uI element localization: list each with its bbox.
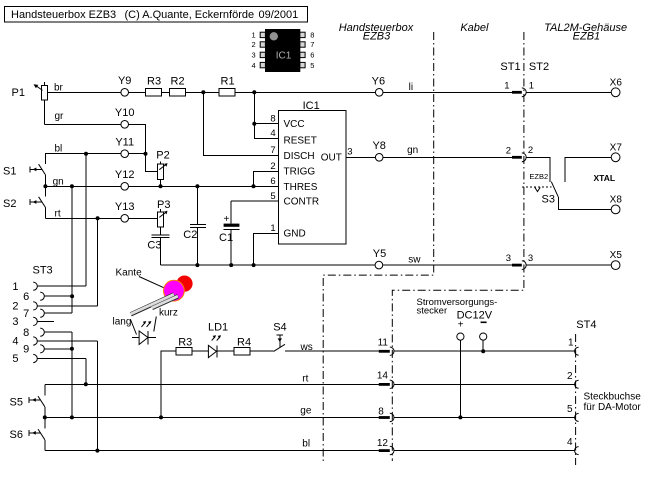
- wire gn to S3 common: [526, 157, 550, 182]
- wire X7 branch: [565, 157, 611, 182]
- node Y13: [121, 215, 129, 223]
- svg-text:4: 4: [567, 437, 573, 448]
- junction gn drop: [70, 184, 74, 188]
- junction pin6: [70, 294, 74, 298]
- svg-text:Y5: Y5: [373, 248, 386, 260]
- svg-text:S6: S6: [10, 429, 23, 441]
- svg-text:rt: rt: [55, 209, 61, 220]
- connector ST1/ST2 pin 2 plug bar: [512, 156, 522, 159]
- svg-text:li: li: [409, 82, 413, 93]
- junction bl/P2: [144, 152, 148, 156]
- wire TRIGG bracket: [254, 171, 279, 186]
- chip pin 6 right: [300, 52, 305, 57]
- node Y8: [375, 154, 383, 162]
- wire pin8 drop to ge row: [71, 332, 73, 417]
- svg-text:Y10: Y10: [115, 107, 135, 119]
- boundary dash-dot ST4: [575, 334, 577, 465]
- svg-text:stecker: stecker: [417, 306, 448, 317]
- chip pin 3 left: [260, 52, 265, 57]
- svg-text:kurz: kurz: [159, 308, 178, 319]
- junction bl/pin1 drop: [84, 152, 88, 156]
- connector bar 14: [379, 383, 390, 386]
- chip pin 4 left: [260, 62, 265, 67]
- svg-text:S2: S2: [3, 198, 16, 210]
- junction row92 VCC drop: [252, 90, 256, 94]
- svg-text:2: 2: [12, 301, 18, 313]
- svg-text:P2: P2: [156, 149, 169, 161]
- junction rt drop: [96, 216, 100, 220]
- svg-text:gr: gr: [55, 111, 65, 122]
- svg-text:ws: ws: [300, 342, 313, 353]
- svg-text:8: 8: [310, 31, 314, 40]
- svg-text:C1: C1: [219, 232, 233, 244]
- wire pin5 drop to rt row: [85, 359, 87, 385]
- boundary dash-dot EZB3/Kabel: [323, 32, 434, 463]
- svg-text:6: 6: [270, 176, 275, 187]
- svg-text:ST2: ST2: [529, 61, 549, 73]
- svg-text:Y6: Y6: [372, 75, 385, 87]
- LED photo leads gray: [130, 294, 173, 314]
- svg-text:4: 4: [252, 61, 256, 70]
- wire OUT to Y8: [346, 156, 512, 158]
- wire S2 bottom to rt row: [44, 208, 46, 219]
- svg-text:4: 4: [12, 336, 18, 348]
- connector bar 12: [379, 449, 390, 452]
- ground rail: [161, 264, 513, 266]
- LED photo leads outline: [131, 295, 174, 315]
- connector ST3 pin 9: [40, 345, 44, 353]
- svg-text:1: 1: [270, 223, 275, 234]
- svg-text:X7: X7: [610, 143, 623, 154]
- terminal X7: [611, 153, 620, 162]
- resistor R1: [219, 89, 235, 96]
- title box: [5, 7, 308, 23]
- junction gn S1/S2: [43, 184, 47, 188]
- resistor R3 bottom: [176, 348, 192, 355]
- resistor R2: [169, 89, 185, 96]
- connector ST3 pin 2: [33, 302, 37, 310]
- svg-text:rt: rt: [302, 374, 308, 385]
- connector bar 8: [379, 416, 390, 419]
- connector ST3 pin 4: [33, 337, 37, 345]
- svg-text:5: 5: [270, 191, 275, 202]
- wire P2 bottom: [159, 179, 161, 186]
- svg-text:S1: S1: [3, 166, 16, 178]
- svg-text:7: 7: [270, 145, 275, 156]
- svg-text:VCC: VCC: [284, 119, 305, 130]
- node Y5: [375, 261, 383, 269]
- svg-text:R1: R1: [221, 76, 235, 88]
- svg-text:8: 8: [270, 114, 275, 125]
- switch S4: [273, 322, 286, 352]
- svg-text:P3: P3: [157, 199, 170, 211]
- IC chip icon body: [252, 29, 315, 72]
- potentiometer P1: [12, 82, 48, 125]
- svg-text:3: 3: [12, 316, 18, 328]
- svg-text:Y13: Y13: [115, 201, 135, 213]
- connector ST1/ST2 pin 3 socket arc: [522, 261, 526, 270]
- svg-text:8: 8: [378, 407, 384, 418]
- wire bl to ST4 pin4: [394, 450, 574, 452]
- svg-text:bl: bl: [302, 439, 310, 450]
- svg-text:8: 8: [23, 327, 29, 339]
- junction ge S5/S6: [43, 415, 47, 419]
- svg-text:Y12: Y12: [115, 169, 135, 181]
- svg-text:EZB1: EZB1: [573, 31, 601, 43]
- svg-text:Steckbuchse: Steckbuchse: [584, 391, 642, 402]
- junction pin5/rt: [84, 382, 88, 386]
- node Y6: [375, 89, 383, 97]
- wire rt drop to pin2: [97, 218, 99, 306]
- chip pin 7 right: [300, 42, 305, 47]
- svg-text:5: 5: [567, 404, 573, 415]
- svg-text:2: 2: [252, 40, 256, 49]
- svg-text:OUT: OUT: [321, 152, 342, 163]
- svg-text:für DA-Motor: für DA-Motor: [584, 402, 642, 413]
- switch S1: [3, 164, 46, 177]
- svg-text:+: +: [458, 319, 464, 330]
- svg-text:1: 1: [504, 80, 509, 91]
- capacitor C3: [147, 235, 169, 252]
- op-amp/timer IC1 body: [278, 111, 346, 245]
- svg-text:THRES: THRES: [284, 182, 318, 193]
- svg-text:11: 11: [378, 338, 389, 349]
- connector ST3 pin 3: [33, 317, 37, 325]
- junction VCC: [252, 122, 256, 126]
- svg-text:R3: R3: [147, 76, 161, 88]
- svg-text:3: 3: [252, 51, 256, 60]
- svg-text:R3: R3: [178, 337, 192, 349]
- junction rail GND: [252, 263, 256, 267]
- svg-text:4: 4: [270, 128, 275, 139]
- svg-text:1: 1: [12, 281, 18, 293]
- leader Kante to LED: [139, 277, 164, 288]
- svg-text:14: 14: [377, 371, 389, 382]
- junction bl pin4: [95, 449, 99, 453]
- LED photo magenta body: [164, 280, 185, 301]
- junction rail C1: [229, 263, 233, 267]
- terminal X8: [611, 205, 620, 214]
- switch S2: [3, 186, 46, 210]
- svg-text:X6: X6: [610, 78, 623, 89]
- wire ge to ST4 pin5: [394, 416, 574, 418]
- svg-text:X5: X5: [610, 250, 623, 261]
- svg-text:gn: gn: [407, 145, 418, 156]
- svg-text:TRIGG: TRIGG: [284, 167, 316, 178]
- potentiometer P3: [157, 199, 170, 227]
- svg-text:Y9: Y9: [118, 75, 131, 87]
- connector ST4 pin 1: [575, 347, 579, 355]
- junction pin9 on pin8 drop: [70, 347, 74, 351]
- chip pin 2 left: [260, 42, 265, 47]
- chip dot marker: [270, 32, 278, 40]
- connector ST3 pin 8: [40, 328, 44, 336]
- wire S4 to connector 11: [285, 350, 379, 352]
- junction rail C2: [195, 263, 199, 267]
- svg-text:3: 3: [347, 147, 352, 158]
- svg-text:6: 6: [310, 51, 314, 60]
- wire pin4 drop to bl row: [96, 341, 98, 451]
- svg-text:Kabel: Kabel: [460, 22, 489, 34]
- wire minus to ws row: [482, 340, 484, 351]
- wire rt row Y13 to P3: [45, 217, 157, 219]
- node Y12: [121, 183, 129, 191]
- terminal X5: [611, 261, 620, 270]
- svg-text:CONTR: CONTR: [284, 197, 320, 208]
- svg-text:Y11: Y11: [115, 136, 134, 148]
- junction gn P2 bottom: [159, 184, 163, 188]
- svg-text:EZB3: EZB3: [363, 31, 391, 43]
- svg-text:EZB2: EZB2: [529, 172, 548, 181]
- rail right of ST1 socket to X5: [526, 264, 611, 266]
- wire br row Y9: [47, 91, 512, 93]
- svg-text:ge: ge: [300, 406, 312, 417]
- svg-text:XTAL: XTAL: [594, 173, 616, 183]
- connector ST3 pin 5: [33, 354, 37, 362]
- wire gn row Y12 / THRES: [45, 185, 278, 187]
- svg-text:1: 1: [529, 81, 534, 92]
- svg-text:S5: S5: [10, 397, 23, 409]
- switch S3 blade: [551, 182, 558, 197]
- resistor R4: [234, 348, 250, 355]
- chip pin 1 left: [260, 32, 265, 37]
- minus terminal: [481, 322, 487, 324]
- svg-text:lang: lang: [113, 317, 132, 328]
- svg-text:3: 3: [506, 253, 511, 264]
- connector ST3 pin 6: [40, 292, 44, 300]
- svg-text:R2: R2: [171, 76, 185, 88]
- boundary dash-dot Kabel/TAL2M ST2: [392, 32, 524, 461]
- wire ge row bottom: [45, 416, 379, 418]
- svg-text:LD1: LD1: [208, 321, 228, 333]
- connector bar 11: [379, 350, 390, 353]
- connector ST1/ST2 pin 3 plug bar: [512, 264, 522, 267]
- chip pin 5 right: [300, 62, 305, 67]
- connector ST3 pin 7: [40, 309, 44, 317]
- connector ST4 pin 4: [575, 447, 579, 455]
- wire bl row bottom: [45, 450, 379, 452]
- wire DISCH drop: [203, 92, 278, 155]
- capacitor C2: [183, 186, 206, 265]
- leader kurz: [154, 317, 157, 332]
- leader lang: [131, 320, 137, 335]
- svg-text:2: 2: [567, 371, 573, 382]
- wire ws to ST4 pin1: [394, 350, 574, 352]
- switch S5: [10, 384, 45, 417]
- svg-text:C2: C2: [183, 229, 197, 241]
- capacitor C1 electrolytic: [219, 201, 239, 265]
- chip pin 8 right: [300, 32, 305, 37]
- svg-text:12: 12: [377, 438, 389, 449]
- svg-text:DISCH: DISCH: [284, 151, 315, 162]
- wire rt to ST4 pin2: [394, 383, 574, 385]
- wire GND pin drop: [254, 233, 279, 265]
- junction gn C2: [195, 184, 199, 188]
- connector ST4 pin 5: [575, 413, 579, 421]
- svg-text:S3: S3: [542, 193, 555, 205]
- connector ST3 pin 1: [33, 282, 37, 290]
- junction ge R3 feed: [159, 415, 163, 419]
- connector ST1/ST2 pin 2 socket arc: [522, 153, 526, 162]
- junction gn TRIGG bracket: [252, 184, 256, 188]
- resistor R3 top: [145, 89, 161, 96]
- svg-text:7: 7: [23, 308, 29, 320]
- wire VCC/RESET drop: [254, 92, 278, 138]
- wire gn drop to pin6/pin7: [71, 186, 73, 313]
- svg-text:Y8: Y8: [372, 140, 385, 152]
- svg-text:1: 1: [252, 31, 256, 40]
- svg-text:gn: gn: [53, 176, 64, 187]
- svg-text:1: 1: [568, 338, 574, 349]
- LED photo red dome: [176, 276, 192, 292]
- node Y10: [121, 121, 129, 129]
- wire ge feed up to ws row: [161, 351, 274, 417]
- svg-text:2: 2: [270, 161, 275, 172]
- connector ST1/ST2 pin 1 plug bar: [512, 91, 522, 94]
- svg-text:7: 7: [310, 40, 314, 49]
- svg-text:IC1: IC1: [303, 100, 320, 112]
- switch S6: [10, 417, 45, 450]
- svg-text:9: 9: [23, 343, 29, 355]
- mechanical dotted link EZB2: [522, 186, 552, 188]
- wire P3 bottom to C3: [159, 227, 161, 234]
- svg-text:C3: C3: [147, 239, 161, 251]
- wire row92 right of ST1 socket to X6: [526, 91, 611, 93]
- svg-text:ST1: ST1: [500, 61, 520, 73]
- wire to P2 top: [146, 154, 158, 172]
- svg-text:bl: bl: [55, 144, 63, 155]
- wire S3 to X8: [558, 197, 611, 210]
- svg-text:X8: X8: [610, 195, 623, 206]
- node Y9: [121, 89, 129, 97]
- svg-text:3: 3: [528, 253, 533, 264]
- svg-text:2: 2: [506, 145, 511, 156]
- wire rt row bottom: [45, 383, 379, 385]
- svg-text:P1: P1: [12, 87, 25, 99]
- wire plus to ge row: [459, 340, 461, 417]
- wire bl row Y11: [45, 154, 145, 164]
- node Y11: [121, 150, 129, 158]
- connector ST1/ST2 pin 1 socket arc: [522, 88, 526, 97]
- svg-text:sw: sw: [408, 254, 421, 265]
- svg-text:5: 5: [12, 353, 18, 365]
- wire gr row Y10: [44, 124, 145, 153]
- wire bl drop to pin1: [85, 154, 87, 286]
- LED LD1: [208, 321, 228, 357]
- svg-text:2: 2: [528, 145, 533, 156]
- wire S1 bottom to gn row: [44, 175, 46, 186]
- junction ws minus: [481, 349, 485, 353]
- svg-text:5: 5: [310, 61, 314, 70]
- svg-text:S4: S4: [273, 322, 286, 334]
- wire CONTR to C1: [231, 200, 278, 202]
- wire C3 bottom to rail: [160, 238, 162, 265]
- svg-text:IC1: IC1: [276, 51, 292, 62]
- junction ge pin8: [70, 415, 74, 419]
- svg-text:6: 6: [23, 291, 29, 303]
- potentiometer P2: [156, 149, 169, 179]
- junction row92 DISCH drop: [201, 90, 205, 94]
- svg-text:Kante: Kante: [116, 268, 143, 279]
- svg-text:RESET: RESET: [284, 135, 317, 146]
- svg-text:GND: GND: [284, 229, 306, 240]
- svg-text:+: +: [224, 214, 230, 225]
- junction plus/ge: [458, 415, 462, 419]
- svg-text:ST4: ST4: [576, 319, 596, 331]
- svg-text:br: br: [54, 83, 64, 94]
- svg-text:ST3: ST3: [33, 264, 53, 276]
- svg-text:R4: R4: [237, 337, 251, 349]
- connector ST4 pin 2: [575, 380, 579, 388]
- LED symbol explainer diode: [132, 321, 156, 345]
- terminal X6: [611, 88, 620, 97]
